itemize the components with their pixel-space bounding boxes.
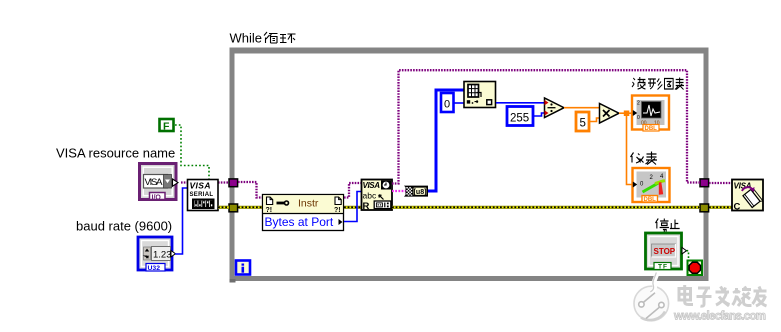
left tunnel (error, olive): [229, 204, 238, 212]
wire: 0 to index array: [454, 102, 464, 104]
波: [632, 78, 635, 87]
svg-text:VISA resource name: VISA resource name: [56, 146, 175, 161]
loop iteration terminal i: [236, 261, 250, 275]
wire: error right tunnel to VISA Close: [709, 206, 732, 209]
watermark 电子发烧友: [679, 285, 767, 306]
svg-text:www.elecfans.com: www.elecfans.com: [673, 311, 766, 323]
svg-text:[u8]: [u8]: [414, 189, 427, 196]
wire: error olive tunnel to property node: [238, 206, 263, 209]
meter terminal: [633, 168, 670, 203]
svg-text:5: 5: [580, 118, 586, 130]
VISA resource name control: [140, 164, 179, 202]
wire: multiply out to chart and meter, orange with junction: [619, 112, 631, 114]
wire: byte array thick blue up to index array: [428, 90, 464, 191]
key icon: [277, 202, 285, 205]
svg-text:I/O: I/O: [152, 194, 162, 201]
wire: error VISA Read to right tunnel: [392, 206, 700, 209]
svg-text:0: 0: [637, 115, 640, 121]
子: [697, 288, 712, 306]
svg-text:TF: TF: [658, 264, 668, 271]
svg-text:?!: ?!: [334, 207, 341, 214]
wire: index array out to divide: [496, 102, 544, 104]
wire: 5 to multiply: [589, 118, 599, 122]
电: [679, 285, 693, 305]
right tunnel (error, olive): [700, 204, 709, 212]
boolean constant F: [160, 119, 174, 133]
svg-text:R: R: [363, 201, 370, 212]
svg-text:baud rate (9600): baud rate (9600): [76, 219, 172, 234]
wire: stop boolean dotted green: [687, 251, 689, 260]
svg-text:Instr: Instr: [298, 198, 319, 210]
while loop label "While循环": [230, 31, 296, 46]
wire: baud rate blue: [175, 188, 188, 254]
wire: VISA purple control to VISA SERIAL: [181, 181, 188, 183]
wire: 255 to divide: [534, 113, 544, 116]
loop condition terminal (stop sign): [688, 261, 703, 276]
wire: error property node to VISA Read: [344, 206, 362, 209]
numeric constant 5: [576, 112, 589, 131]
numeric constant 0: [441, 93, 454, 112]
止: [670, 220, 680, 229]
友: [753, 287, 767, 307]
multiply node: [600, 104, 620, 124]
waveform chart terminal: [632, 96, 669, 133]
svg-text:0: 0: [444, 99, 450, 111]
svg-text:F: F: [163, 121, 170, 133]
环: [280, 35, 287, 43]
baud rate control: [138, 237, 176, 272]
wire: purple tunnel to property node: [238, 182, 263, 198]
right tunnel (VISA resource, purple): [700, 179, 709, 187]
svg-text:abc: abc: [363, 191, 377, 201]
label 停止: [655, 219, 679, 234]
svg-text:U32: U32: [148, 265, 161, 272]
property node (Bytes at Port): [263, 195, 344, 231]
divide node: [545, 98, 565, 118]
svg-text:DBL: DBL: [645, 126, 658, 132]
图: [664, 79, 673, 90]
svg-text:VISA: VISA: [145, 177, 164, 188]
形: [648, 79, 656, 89]
svg-text:?!: ?!: [266, 207, 273, 214]
停: [655, 219, 658, 229]
发: [716, 287, 730, 307]
wire: VISA SERIAL to left tunnel: [218, 181, 229, 183]
svg-text:VISA: VISA: [363, 181, 381, 190]
left tunnel (VISA resource, purple): [229, 179, 238, 187]
wire: purple right tunnel to VISA Close: [709, 182, 732, 184]
watermark logo disc: [634, 273, 669, 321]
label 仪表: [631, 152, 658, 165]
svg-text:Bytes at Port: Bytes at Port: [265, 215, 334, 229]
VISA Read node: [362, 180, 393, 213]
VISA Close node: [732, 180, 763, 213]
wire: F boolean dotted green: [175, 125, 209, 179]
wire: purple property node to VISA Read: [344, 183, 362, 198]
VISA Configure Serial Port node: [188, 180, 219, 211]
while loop border: [230, 48, 709, 283]
wire: divide to multiply orange: [564, 107, 599, 109]
svg-text:C: C: [734, 202, 741, 213]
仪: [631, 153, 634, 163]
wire: error olive VISA SERIAL to tunnel: [218, 206, 229, 209]
label 波形图表: [632, 77, 684, 90]
svg-text:255: 255: [510, 113, 529, 125]
index array node: [464, 82, 496, 108]
stop button: [646, 233, 687, 271]
表: [646, 152, 658, 165]
string to byte array node: [404, 186, 428, 197]
svg-text:STOP: STOP: [654, 247, 676, 256]
right refnum icon: [335, 197, 341, 205]
numeric constant 255: [507, 107, 533, 126]
svg-text:While: While: [230, 31, 263, 46]
svg-text:1.23: 1.23: [153, 250, 172, 261]
svg-text:2: 2: [637, 101, 640, 107]
wire: blue Bytes at Port to VISA Read byte count: [344, 192, 362, 222]
wire: VISA resource out of VISA Read up and across to right tunnel: [392, 70, 700, 183]
svg-text:DBL: DBL: [644, 197, 657, 203]
wire: pink string data out: [392, 190, 406, 192]
循: [264, 32, 270, 43]
left refnum icon: [267, 197, 273, 205]
svg-text:SERIAL: SERIAL: [190, 192, 214, 198]
烧: [733, 288, 742, 305]
svg-text:VISA: VISA: [190, 181, 211, 191]
表: [675, 78, 684, 90]
